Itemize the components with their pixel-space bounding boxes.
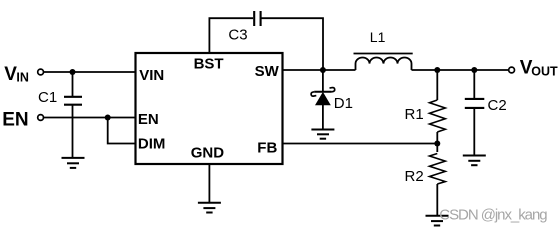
svg-text:V: V bbox=[4, 64, 17, 85]
svg-text:DIM: DIM bbox=[138, 136, 166, 153]
svg-text:R1: R1 bbox=[405, 106, 424, 123]
svg-text:CSDN @jnx_kang: CSDN @jnx_kang bbox=[439, 207, 547, 224]
svg-text:IN: IN bbox=[16, 71, 29, 85]
svg-text:BST: BST bbox=[194, 56, 224, 73]
svg-text:EN: EN bbox=[138, 111, 159, 128]
svg-text:C3: C3 bbox=[228, 26, 247, 43]
svg-text:C2: C2 bbox=[488, 97, 507, 114]
svg-text:R2: R2 bbox=[405, 168, 424, 185]
svg-text:C1: C1 bbox=[38, 89, 57, 106]
svg-text:EN: EN bbox=[2, 109, 28, 130]
svg-text:FB: FB bbox=[257, 140, 277, 157]
svg-text:GND: GND bbox=[191, 145, 225, 162]
svg-text:D1: D1 bbox=[334, 95, 353, 112]
svg-text:L1: L1 bbox=[370, 29, 386, 45]
svg-text:SW: SW bbox=[255, 63, 280, 80]
svg-text:VIN: VIN bbox=[139, 67, 164, 84]
svg-text:OUT: OUT bbox=[531, 65, 558, 79]
